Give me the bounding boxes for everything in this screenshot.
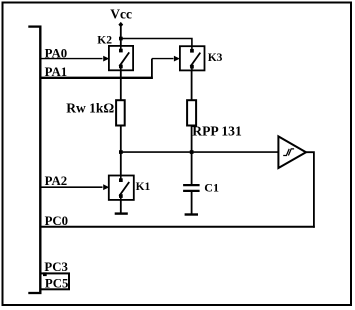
- node junction left: [119, 150, 123, 154]
- arrow into K1: [103, 184, 109, 190]
- svg-text:RPP 131: RPP 131: [192, 124, 242, 139]
- wire K1 to ground: [120, 200, 122, 214]
- svg-text:Vcc: Vcc: [110, 7, 132, 22]
- wire node to C1: [191, 152, 193, 185]
- capacitor C1: [183, 185, 200, 191]
- arrow into K2: [103, 56, 109, 62]
- svg-text:PA2: PA2: [45, 174, 68, 188]
- wire RPP to node: [191, 126, 193, 154]
- node junction right: [190, 150, 194, 154]
- svg-text:K2: K2: [97, 35, 112, 47]
- wire buffer output: [306, 152, 314, 228]
- PC5 box: [41, 273, 70, 289]
- wire Rw to node: [120, 126, 122, 154]
- wire Vcc branch to K3 top: [121, 39, 192, 48]
- svg-text:K3: K3: [208, 52, 223, 64]
- resistor Rw: [116, 100, 125, 125]
- switch K3: [180, 46, 205, 70]
- wire K3 to RPP: [191, 70, 193, 101]
- svg-text:C1: C1: [204, 181, 219, 195]
- op-amp buffer (Schmitt trigger): [278, 136, 306, 168]
- Vcc terminal (diamond): [118, 22, 123, 28]
- node square on PC3 line: [43, 272, 47, 276]
- node junction on Vcc line: [119, 37, 123, 41]
- svg-text:K1: K1: [136, 181, 151, 193]
- wire Vcc down to K2: [120, 27, 122, 48]
- svg-text:PC5: PC5: [45, 277, 68, 291]
- wire PA1 riser: [151, 59, 153, 79]
- switch K2: [109, 46, 133, 70]
- ground bar under C1: [185, 213, 198, 215]
- wire C1 to ground: [191, 191, 193, 215]
- ground bar under K1: [115, 212, 128, 214]
- port bus (left vertical rail): [28, 26, 41, 295]
- arrow into K3: [174, 56, 180, 62]
- wire to K3 arrow: [152, 58, 174, 60]
- wire node line to buffer: [121, 151, 278, 153]
- wire node to K1: [120, 152, 122, 177]
- wire PA0 line: [42, 58, 103, 60]
- svg-text:Rw 1kΩ: Rw 1kΩ: [66, 100, 114, 115]
- wire PA2 line: [42, 186, 103, 188]
- resistor RPP 131: [187, 100, 196, 125]
- wire K2 to Rw: [120, 70, 122, 101]
- switch K1: [109, 176, 134, 200]
- wire PC0 line: [42, 226, 315, 228]
- wire PA1 line: [42, 77, 153, 79]
- svg-text:PC3: PC3: [44, 260, 67, 274]
